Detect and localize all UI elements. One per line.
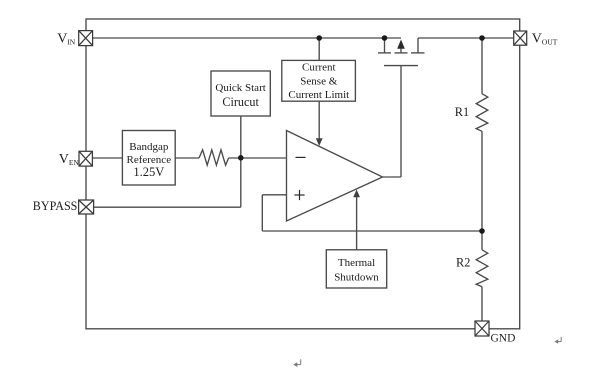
block: Quick Start Cirucut <box>211 71 270 116</box>
block: Bandgap Reference 1.25V <box>122 131 175 186</box>
wire: non-inverting input down leg <box>261 195 263 231</box>
U1 minus sign (inverting input) <box>296 156 306 158</box>
svg-text:BYPASS: BYPASS <box>33 199 78 213</box>
Q1 channel bar body <box>395 52 408 54</box>
svg-text:R1: R1 <box>455 105 469 119</box>
wire: VIN net down into Current Sense block <box>318 38 320 60</box>
wire: VOUT node down to R1 <box>481 38 483 94</box>
svg-text:GND: GND <box>491 333 516 345</box>
arrowhead: current limit into op-amp <box>316 138 323 146</box>
wire: BYPASS pin to node A branch <box>94 206 241 208</box>
wire: feedback node to R2 top <box>481 231 483 250</box>
Q1 source stub <box>384 38 386 53</box>
transistor Q1 (PMOS pass element) <box>378 38 425 66</box>
Q1 drain stub <box>417 38 419 53</box>
junction dot: VIN / source <box>382 35 388 41</box>
pin BYPASS (X-box terminal) <box>79 200 94 214</box>
IC boundary (outer border rectangle) <box>86 19 520 329</box>
wire: node A down to BYPASS line <box>240 158 242 207</box>
wire: VEN pin to Bandgap Reference input <box>92 157 122 159</box>
svg-text:1.25V: 1.25V <box>133 165 164 179</box>
Q1 body stub <box>400 46 402 53</box>
wire: op-amp non-inverting input <box>262 194 286 196</box>
wire: R1 bottom to feedback node <box>481 131 483 231</box>
svg-text:VEN: VEN <box>59 152 80 167</box>
junction dot: VIN / current sense tap <box>316 35 322 41</box>
pin VEN (X-box terminal) <box>79 151 92 166</box>
svg-text:Cirucut: Cirucut <box>222 95 259 109</box>
wire: transistor drain to VOUT pin (net VOUT) <box>418 37 514 39</box>
Q1 gate bar <box>384 65 418 67</box>
svg-text:Thermal: Thermal <box>338 257 375 269</box>
paragraph return mark (bottom center) <box>295 359 301 364</box>
wire: R2 bottom to GND pin <box>481 287 483 321</box>
wire: VIN pin to pass transistor source (net VIN) <box>93 37 401 39</box>
Q1 body arrow <box>397 40 405 49</box>
svg-text:Shutdown: Shutdown <box>334 272 379 284</box>
svg-text:Sense &: Sense & <box>300 75 337 87</box>
op-amp U1 (error amplifier) <box>287 131 383 222</box>
wire: Thermal Shutdown output up to op-amp (with arrow) <box>356 195 358 250</box>
wire: Quick Start Circuit output down to node A <box>240 116 242 158</box>
junction dot: node A (resistor / quick start / bypass) <box>238 155 244 161</box>
svg-text:Bandgap: Bandgap <box>129 141 169 153</box>
paragraph return mark (right of GND) <box>556 337 561 342</box>
block: Thermal Shutdown <box>326 250 386 288</box>
pin VIN (X-box terminal) <box>79 31 93 46</box>
block: Current Sense & Current Limit <box>282 60 356 101</box>
resistor (series, bandgap to error amp) <box>199 150 229 165</box>
junction dot: feedback node FB <box>479 228 485 234</box>
Q1 channel bar drain <box>411 52 425 54</box>
svg-text:VOUT: VOUT <box>532 31 558 46</box>
wire: Bandgap output to series resistor <box>175 157 199 159</box>
U1 plus sign (non-inverting input) <box>294 190 304 200</box>
wire: gate drive line (op-amp output up to transistor gate) <box>400 66 402 177</box>
svg-text:Reference: Reference <box>127 154 172 166</box>
Q1 channel bar source <box>378 52 391 54</box>
pin GND (X-box terminal) <box>475 321 489 336</box>
svg-text:R2: R2 <box>456 255 470 269</box>
svg-text:Current Limit: Current Limit <box>288 89 349 101</box>
resistor R1 <box>476 94 488 132</box>
wire: Current Sense output down to op-amp (with arrow) <box>318 101 320 140</box>
junction dot: VOUT / R1 tap <box>479 35 485 41</box>
wire: op-amp output <box>383 176 402 178</box>
arrowhead: thermal shutdown into op-amp <box>353 190 360 198</box>
wire: feedback line to R1/R2 divider (node FB) <box>262 230 482 232</box>
svg-text:VIN: VIN <box>57 31 76 46</box>
wire: resistor to op-amp inverting input (node A) <box>229 157 287 159</box>
pin VOUT (X-box terminal) <box>514 31 527 45</box>
resistor R2 <box>476 250 488 287</box>
svg-text:Current: Current <box>302 62 336 74</box>
svg-text:Quick Start: Quick Start <box>215 82 265 94</box>
